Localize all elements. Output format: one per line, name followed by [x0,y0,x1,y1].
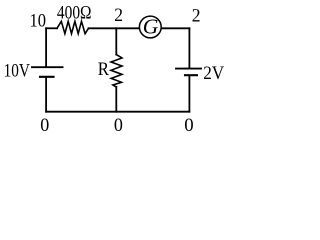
wire left vertical lower [45,77,47,112]
svg-text:0: 0 [184,115,193,136]
svg-text:2: 2 [114,5,123,26]
svg-text:0: 0 [40,115,49,136]
wire right vertical upper [188,28,190,68]
resistor R zigzag [111,55,122,87]
wire middle vertical upper [115,28,117,54]
battery V1 short plate (10V negative) [40,76,54,78]
wire left vertical upper [45,28,47,67]
svg-text:10: 10 [30,11,47,32]
wire top-left segment [46,27,57,29]
wire top-middle segment (resistor to galvanometer) [89,27,140,29]
svg-text:10V: 10V [4,61,31,82]
wire bottom segment [46,111,189,113]
svg-text:2: 2 [192,6,201,27]
wire right vertical lower [188,75,190,111]
svg-text:G: G [143,15,159,39]
wire middle vertical lower [115,87,117,112]
resistor 400ohm zigzag [57,21,89,33]
svg-text:2V: 2V [203,63,224,84]
svg-text:0: 0 [114,115,123,136]
battery V2 long plate (2V positive) [176,68,201,70]
wire top-right segment (galvanometer to right corner) [162,27,190,29]
battery V1 long plate (10V positive) [32,66,63,68]
battery V2 short plate (2V negative) [185,74,197,76]
galvanometer G circle [139,16,161,38]
svg-text:R: R [98,59,109,80]
svg-text:400Ω: 400Ω [57,2,92,23]
